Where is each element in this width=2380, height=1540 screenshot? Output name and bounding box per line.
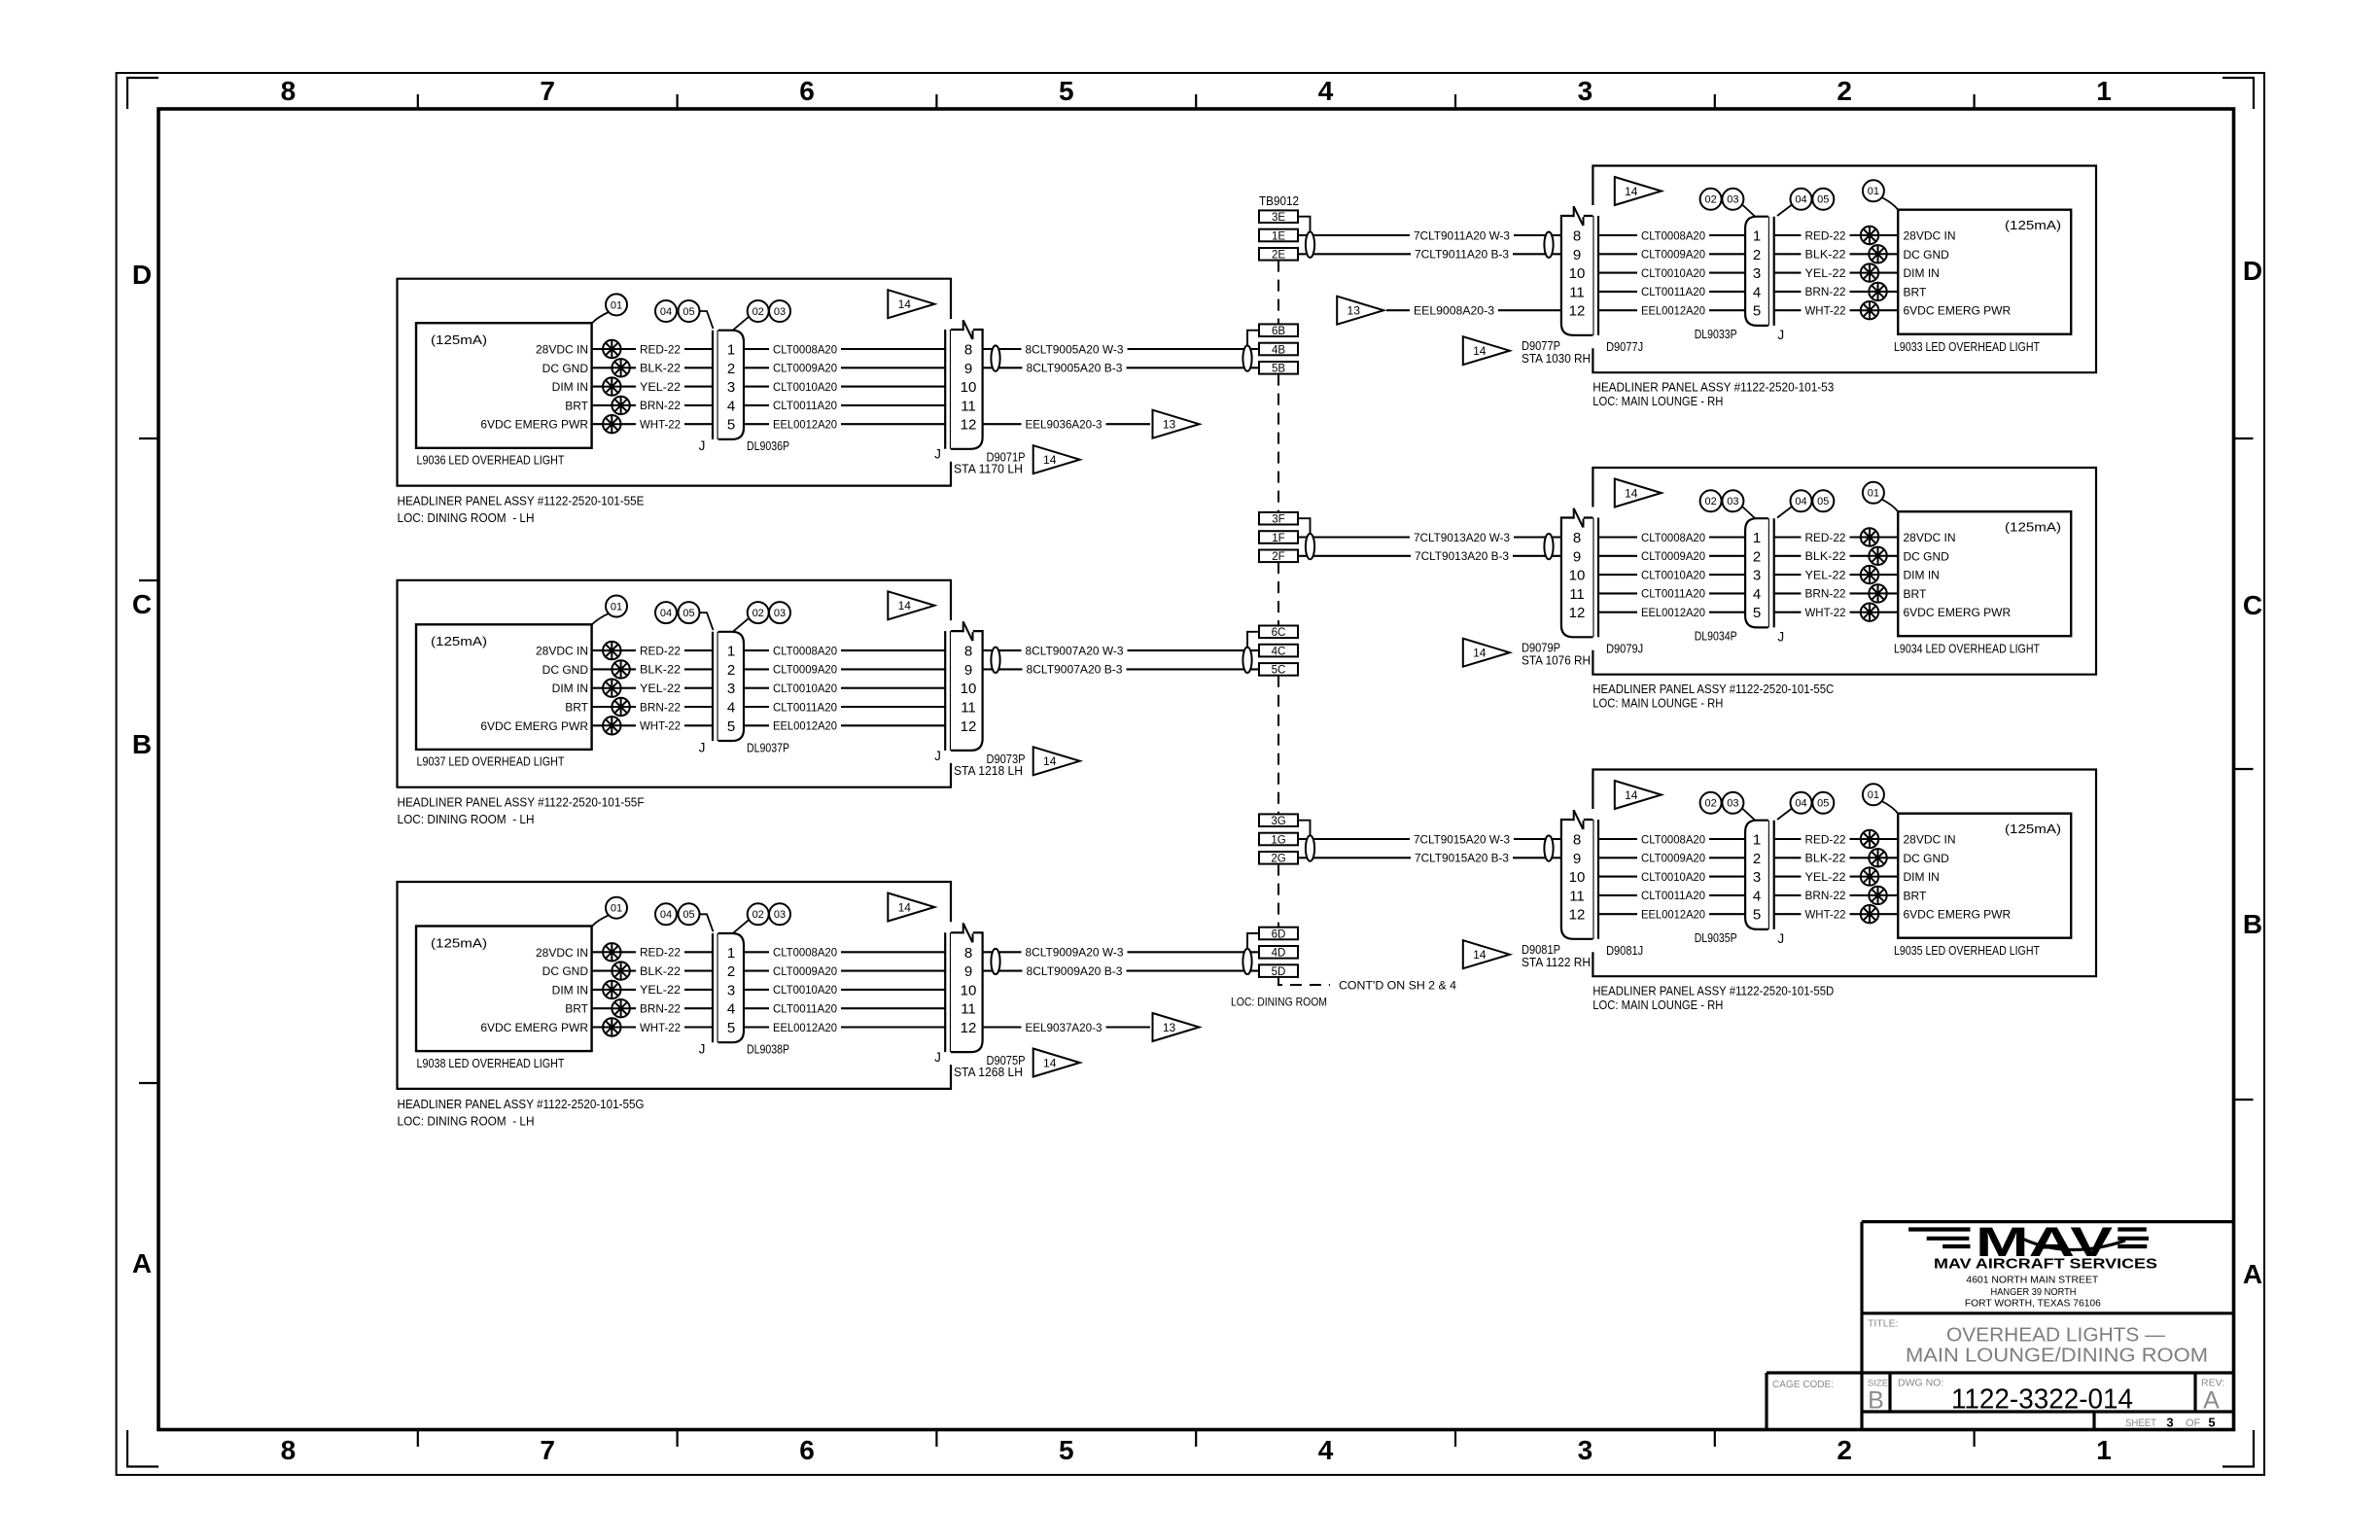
svg-text:1G: 1G xyxy=(1271,834,1285,846)
svg-text:BLK-22: BLK-22 xyxy=(640,964,681,978)
balloon 05 xyxy=(1812,792,1834,814)
connector DL9038P plug body xyxy=(718,933,744,1042)
wire CLT0011A20 from DL9037P to D9073P pin 11 xyxy=(744,706,945,708)
svg-text:WHT-22: WHT-22 xyxy=(640,418,681,432)
svg-text:28VDC IN: 28VDC IN xyxy=(1904,531,1956,544)
svg-text:02: 02 xyxy=(1704,194,1716,206)
lamp symbol on 28VDC IN wire xyxy=(603,943,620,961)
svg-text:10: 10 xyxy=(1569,568,1586,584)
svg-text:EEL9037A20-3: EEL9037A20-3 xyxy=(1026,1021,1102,1034)
svg-text:DIM IN: DIM IN xyxy=(552,983,588,997)
wire label WHT-22 xyxy=(1802,603,1850,616)
svg-text:DC GND: DC GND xyxy=(542,362,589,375)
wire label CLT0009A20 xyxy=(1637,244,1709,258)
svg-text:BLK-22: BLK-22 xyxy=(640,362,681,375)
svg-text:14: 14 xyxy=(1043,453,1057,467)
svg-text:BRN-22: BRN-22 xyxy=(640,399,681,412)
wire BRN-22 from L9036 to DL9036P pin 4 xyxy=(592,404,713,406)
svg-text:A: A xyxy=(132,1248,152,1278)
wire label RED-22 xyxy=(636,942,684,956)
svg-text:BRT: BRT xyxy=(565,399,588,412)
wire CLT0009A20 from D9079J pin 9 to DL9034P xyxy=(1598,555,1745,557)
svg-text:CLT0010A20: CLT0010A20 xyxy=(1641,266,1705,280)
shield drain wire from tag 6D xyxy=(1247,933,1259,949)
svg-text:STA 1268 LH: STA 1268 LH xyxy=(954,1065,1023,1079)
panel assy boundary 1122-2520-101-55F xyxy=(398,580,952,787)
light unit L9035 body xyxy=(1898,814,2071,938)
svg-text:05: 05 xyxy=(1817,496,1829,507)
balloon 02 xyxy=(1700,189,1722,210)
svg-text:13: 13 xyxy=(1347,304,1361,318)
wire label BRN-22 xyxy=(1802,282,1850,296)
svg-text:1: 1 xyxy=(2096,76,2112,106)
svg-text:03: 03 xyxy=(774,608,786,619)
balloon 04 xyxy=(655,602,677,623)
wire label CLT0010A20 xyxy=(1637,263,1709,277)
wire CLT0008A20 from DL9038P to D9075P pin 8 xyxy=(744,951,945,953)
svg-text:HEADLINER PANEL ASSY #1122-252: HEADLINER PANEL ASSY #1122-2520-101-53 xyxy=(1592,380,1834,395)
svg-text:CLT0009A20: CLT0009A20 xyxy=(773,964,837,978)
svg-text:(125mA): (125mA) xyxy=(431,935,487,950)
svg-text:BRN-22: BRN-22 xyxy=(640,1002,681,1016)
wire CLT0009A20 from D9081J pin 9 to DL9035P xyxy=(1598,857,1745,858)
wire CLT0010A20 from DL9036P to D9071P pin 10 xyxy=(744,386,945,388)
wire label 7CLT9011A20 W-3 xyxy=(1410,226,1514,239)
svg-text:CLT0009A20: CLT0009A20 xyxy=(1641,852,1705,865)
light unit L9034 body xyxy=(1898,511,2071,636)
balloon 03 xyxy=(769,903,790,925)
zone ticks xyxy=(417,94,419,109)
flag note triangle 14 xyxy=(1615,781,1662,809)
wire label CLT0010A20 xyxy=(769,980,841,994)
wire label CLT0008A20 xyxy=(769,942,841,956)
wire label RED-22 xyxy=(636,641,684,654)
shield twisted-pair symbol xyxy=(1544,232,1553,258)
flag note triangle 13 xyxy=(1153,1013,1200,1041)
svg-text:RED-22: RED-22 xyxy=(1805,228,1846,242)
leader from balloon 01 xyxy=(1882,801,1899,814)
wire label CLT0011A20 xyxy=(1637,282,1709,296)
wire label CLT0011A20 xyxy=(769,396,841,409)
balloon 03 xyxy=(1722,490,1743,511)
terminal tag 5C of TB9012 xyxy=(1259,663,1298,676)
leader from balloon 02 xyxy=(733,317,750,331)
svg-text:13: 13 xyxy=(1163,418,1176,432)
wire label BLK-22 xyxy=(636,659,684,673)
corner bracket bottom-left xyxy=(127,1430,158,1467)
wire RED-22 from L9038 to DL9038P pin 1 xyxy=(592,951,713,953)
svg-text:3: 3 xyxy=(1753,568,1761,584)
balloon 03 xyxy=(769,602,790,623)
wire 7CLT9011A20 B-3 xyxy=(1298,253,1561,255)
lamp symbol on BRT wire xyxy=(612,397,629,414)
disconnect D9081J jack bar xyxy=(1592,820,1593,939)
svg-text:BRT: BRT xyxy=(1904,587,1927,601)
svg-text:7: 7 xyxy=(540,1435,555,1465)
svg-text:EEL0012A20: EEL0012A20 xyxy=(1641,606,1705,619)
svg-text:WHT-22: WHT-22 xyxy=(1805,304,1846,318)
svg-text:02: 02 xyxy=(1704,496,1716,507)
svg-text:11: 11 xyxy=(1569,586,1585,603)
svg-text:9: 9 xyxy=(964,361,972,377)
svg-text:WHT-22: WHT-22 xyxy=(1805,908,1846,922)
wire label CLT0011A20 xyxy=(769,998,841,1012)
svg-text:(125mA): (125mA) xyxy=(2005,822,2061,836)
balloon 02 xyxy=(1700,792,1722,814)
light unit L9037 body xyxy=(416,624,592,750)
svg-text:WHT-22: WHT-22 xyxy=(640,1021,681,1034)
wire label CLT0011A20 xyxy=(769,697,841,711)
svg-text:03: 03 xyxy=(774,306,786,318)
svg-text:2: 2 xyxy=(727,662,735,679)
svg-text:J: J xyxy=(699,438,706,453)
leader from balloon 05 xyxy=(700,914,714,931)
shield twisted-pair symbol xyxy=(1306,534,1314,559)
wire label BLK-22 xyxy=(1802,244,1850,258)
svg-text:4: 4 xyxy=(1753,888,1761,904)
title block frame xyxy=(1862,1220,2234,1223)
svg-text:BLK-22: BLK-22 xyxy=(640,663,681,677)
wire label 8CLT9009A20 W-3 xyxy=(1022,942,1128,956)
svg-text:LOC: MAIN LOUNGE - RH: LOC: MAIN LOUNGE - RH xyxy=(1592,696,1723,711)
flag note triangle 14 xyxy=(1033,747,1080,775)
wire label 8CLT9007A20 B-3 xyxy=(1023,659,1127,673)
lamp symbol on DC GND wire xyxy=(612,660,629,678)
svg-text:5C: 5C xyxy=(1272,665,1286,677)
svg-text:CLT0011A20: CLT0011A20 xyxy=(1641,285,1705,298)
svg-text:BLK-22: BLK-22 xyxy=(1805,549,1846,563)
svg-text:05: 05 xyxy=(682,909,694,921)
svg-text:LOC: DINING ROOM - LH: LOC: DINING ROOM - LH xyxy=(398,510,535,525)
wire label WHT-22 xyxy=(636,1018,684,1032)
svg-text:14: 14 xyxy=(898,297,912,311)
wire label WHT-22 xyxy=(636,716,684,729)
svg-text:A: A xyxy=(2203,1387,2220,1415)
wire RED-22 from L9037 to DL9037P pin 1 xyxy=(592,649,713,651)
svg-text:BRT: BRT xyxy=(1904,889,1927,902)
svg-text:02: 02 xyxy=(1704,798,1716,810)
svg-text:04: 04 xyxy=(1795,496,1806,507)
svg-text:28VDC IN: 28VDC IN xyxy=(1904,833,1956,847)
balloon 01 xyxy=(1863,180,1884,201)
svg-text:4: 4 xyxy=(1753,284,1761,300)
svg-text:CLT0011A20: CLT0011A20 xyxy=(773,700,837,714)
leader from balloon 04 xyxy=(1777,204,1793,216)
svg-text:04: 04 xyxy=(660,306,672,318)
wire label CLT0009A20 xyxy=(769,659,841,673)
lamp symbol on DC GND wire xyxy=(1869,547,1886,565)
leader from balloon 01 xyxy=(592,613,609,624)
wire 7CLT9013A20 W-3 xyxy=(1298,536,1561,538)
lamp symbol on 28VDC IN wire xyxy=(1861,528,1878,545)
svg-text:5D: 5D xyxy=(1272,966,1286,978)
balloon 05 xyxy=(1812,189,1834,210)
svg-text:6: 6 xyxy=(799,1435,815,1465)
balloon 01 xyxy=(606,596,627,617)
leader from balloon 04 xyxy=(1777,507,1793,518)
svg-text:CLT0010A20: CLT0010A20 xyxy=(773,380,837,394)
svg-text:YEL-22: YEL-22 xyxy=(640,983,681,997)
svg-text:C: C xyxy=(132,589,152,619)
wire label CLT0009A20 xyxy=(769,962,841,975)
corner bracket top-left xyxy=(127,78,158,109)
lamp symbol on BRT wire xyxy=(1869,283,1886,300)
balloon 04 xyxy=(1791,189,1812,210)
svg-text:7CLT9015A20 B-3: 7CLT9015A20 B-3 xyxy=(1415,852,1509,865)
svg-text:YEL-22: YEL-22 xyxy=(1805,266,1846,280)
svg-text:8: 8 xyxy=(1573,832,1581,849)
wire EEL0012A20 from DL9038P to D9075P pin 12 xyxy=(744,1026,945,1028)
wire label RED-22 xyxy=(636,339,684,353)
svg-text:02: 02 xyxy=(752,306,764,318)
balloon 05 xyxy=(679,903,700,925)
svg-text:OF: OF xyxy=(2186,1417,2201,1429)
svg-text:BRT: BRT xyxy=(1904,285,1927,298)
svg-text:6C: 6C xyxy=(1272,627,1286,639)
svg-text:A: A xyxy=(2243,1259,2262,1289)
svg-text:LOC: MAIN LOUNGE - RH: LOC: MAIN LOUNGE - RH xyxy=(1592,997,1723,1012)
wire label EEL0012A20 xyxy=(1637,603,1709,616)
svg-text:CLT0010A20: CLT0010A20 xyxy=(773,983,837,997)
shield twisted-pair symbol xyxy=(1242,345,1251,370)
svg-text:2F: 2F xyxy=(1272,551,1284,563)
svg-text:5: 5 xyxy=(1059,76,1074,106)
dashed terminal strip continuation line xyxy=(1277,864,1279,927)
wire label BRN-22 xyxy=(636,396,684,409)
svg-text:2G: 2G xyxy=(1271,854,1285,865)
svg-text:8: 8 xyxy=(964,342,972,359)
svg-text:RED-22: RED-22 xyxy=(640,946,681,960)
wire 8CLT9009A20 B-3 xyxy=(983,970,1259,972)
svg-text:(125mA): (125mA) xyxy=(2005,218,2061,232)
svg-text:2: 2 xyxy=(727,963,735,980)
terminal tag 3E of TB9012 xyxy=(1259,210,1298,223)
disconnect D9071P jack bar xyxy=(944,330,946,449)
wire CLT0009A20 from DL9037P to D9073P pin 9 xyxy=(744,668,945,670)
svg-text:6VDC EMERG PWR: 6VDC EMERG PWR xyxy=(1904,304,2012,318)
lamp symbol on 6VDC EMERG PWR wire xyxy=(603,1018,620,1035)
svg-text:RED-22: RED-22 xyxy=(640,342,681,356)
svg-text:10: 10 xyxy=(961,379,977,396)
svg-text:DC GND: DC GND xyxy=(1904,248,1950,262)
svg-text:J: J xyxy=(934,447,941,462)
lamp symbol on DC GND wire xyxy=(1869,245,1886,262)
svg-text:12: 12 xyxy=(961,718,977,735)
svg-text:(125mA): (125mA) xyxy=(431,332,487,347)
wire EEL0012A20 from D9077J pin 12 to DL9033P xyxy=(1598,309,1745,311)
wire CLT0010A20 from DL9038P to D9075P pin 10 xyxy=(744,989,945,991)
lamp symbol on 28VDC IN wire xyxy=(1861,227,1878,244)
wire label CLT0010A20 xyxy=(1637,867,1709,881)
svg-text:RED-22: RED-22 xyxy=(640,644,681,657)
disconnect D9077P plug body xyxy=(1561,216,1593,335)
wire label YEL-22 xyxy=(636,679,684,692)
light unit L9036 body xyxy=(416,323,592,448)
svg-text:4D: 4D xyxy=(1272,948,1286,960)
leader from balloon 01 xyxy=(1882,197,1899,210)
svg-text:8CLT9009A20 B-3: 8CLT9009A20 B-3 xyxy=(1027,964,1123,978)
svg-text:1122-3322-014: 1122-3322-014 xyxy=(1951,1384,2133,1416)
wire label BRN-22 xyxy=(1802,583,1850,597)
svg-text:6: 6 xyxy=(799,76,815,106)
svg-text:BRT: BRT xyxy=(565,701,588,715)
svg-text:HEADLINER PANEL ASSY #1122-252: HEADLINER PANEL ASSY #1122-2520-101-55F xyxy=(398,795,645,810)
svg-text:DC GND: DC GND xyxy=(1904,852,1950,865)
panel assy boundary 1122-2520-101-55D xyxy=(1592,770,2096,977)
panel assy boundary 1122-2520-101-55E xyxy=(398,279,952,486)
wire BLK-22 from DL9034P pin 2 to L9034 xyxy=(1774,555,1899,557)
svg-text:01: 01 xyxy=(611,299,622,311)
svg-text:J: J xyxy=(699,1042,706,1057)
svg-text:DIM IN: DIM IN xyxy=(552,682,588,695)
wire YEL-22 from DL9033P pin 3 to L9033 xyxy=(1774,272,1899,274)
connector DL9034P jack bar xyxy=(1767,518,1769,627)
svg-text:STA 1170 LH: STA 1170 LH xyxy=(954,462,1023,476)
svg-text:BRN-22: BRN-22 xyxy=(1805,889,1846,902)
svg-text:01: 01 xyxy=(611,903,622,915)
svg-text:(125mA): (125mA) xyxy=(431,634,487,648)
lamp symbol on DIM IN wire xyxy=(1861,867,1878,885)
svg-text:1E: 1E xyxy=(1272,230,1285,242)
svg-text:6VDC EMERG PWR: 6VDC EMERG PWR xyxy=(480,719,588,733)
svg-text:7CLT9011A20 W-3: 7CLT9011A20 W-3 xyxy=(1414,228,1510,242)
connector DL9037P plug body xyxy=(718,632,744,741)
corner bracket bottom-right xyxy=(2222,1430,2254,1467)
lamp symbol on 28VDC IN wire xyxy=(1861,830,1878,848)
svg-text:02: 02 xyxy=(752,608,764,619)
lamp symbol on 28VDC IN wire xyxy=(603,340,620,358)
wire RED-22 from DL9034P pin 1 to L9034 xyxy=(1774,536,1899,538)
svg-text:DC GND: DC GND xyxy=(1904,549,1950,563)
svg-text:9: 9 xyxy=(964,662,972,679)
flag note triangle 14 xyxy=(1463,639,1510,667)
wire label CLT0009A20 xyxy=(769,358,841,371)
svg-text:03: 03 xyxy=(1727,798,1738,810)
svg-text:FORT WORTH, TEXAS 76106: FORT WORTH, TEXAS 76106 xyxy=(1965,1299,2101,1310)
svg-text:9: 9 xyxy=(964,963,972,980)
shield twisted-pair symbol xyxy=(1306,835,1314,860)
connector DL9038P jack bar xyxy=(712,933,714,1042)
lamp symbol on BRT wire xyxy=(1869,887,1886,904)
svg-text:4: 4 xyxy=(727,398,735,414)
svg-text:8: 8 xyxy=(964,644,972,660)
wire YEL-22 from L9036 to DL9036P pin 3 xyxy=(592,386,713,388)
disconnect D9079J jack bar xyxy=(1592,518,1593,638)
dashed terminal strip continuation line xyxy=(1277,261,1279,325)
wire label 7CLT9011A20 B-3 xyxy=(1411,244,1513,258)
svg-text:B: B xyxy=(1868,1387,1884,1415)
wire label BRN-22 xyxy=(1802,886,1850,899)
shield drain wire from tag 6C xyxy=(1247,632,1259,647)
break symbol on D9077P xyxy=(1574,214,1584,217)
svg-text:10: 10 xyxy=(1569,869,1586,886)
svg-text:6B: 6B xyxy=(1272,326,1285,337)
terminal tag 5B of TB9012 xyxy=(1259,362,1298,374)
svg-text:DIM IN: DIM IN xyxy=(1904,266,1940,280)
svg-text:BLK-22: BLK-22 xyxy=(1805,248,1846,262)
svg-text:3F: 3F xyxy=(1272,514,1284,526)
svg-text:J: J xyxy=(699,740,706,754)
svg-text:03: 03 xyxy=(1727,194,1738,206)
leader from balloon 01 xyxy=(1882,500,1899,512)
svg-text:28VDC IN: 28VDC IN xyxy=(1904,229,1956,243)
svg-text:02: 02 xyxy=(752,909,764,921)
svg-text:RED-22: RED-22 xyxy=(1805,531,1846,544)
wire label 8CLT9009A20 B-3 xyxy=(1023,962,1127,975)
svg-text:01: 01 xyxy=(1868,789,1879,801)
svg-text:CLT0008A20: CLT0008A20 xyxy=(773,342,837,356)
svg-text:5: 5 xyxy=(727,718,735,735)
wire EEL0012A20 from D9081J pin 12 to DL9035P xyxy=(1598,913,1745,915)
svg-text:11: 11 xyxy=(961,700,976,717)
wire BLK-22 from DL9033P pin 2 to L9033 xyxy=(1774,253,1899,255)
lamp symbol on BRT wire xyxy=(1869,584,1886,602)
svg-text:14: 14 xyxy=(1625,486,1638,500)
flag note triangle 14 xyxy=(1463,336,1510,365)
terminal tag 3G of TB9012 xyxy=(1259,814,1298,826)
svg-text:DIM IN: DIM IN xyxy=(1904,870,1940,884)
dashed terminal strip continuation line xyxy=(1277,562,1279,625)
lamp symbol on 28VDC IN wire xyxy=(603,642,620,659)
svg-text:L9034 LED OVERHEAD LIGHT: L9034 LED OVERHEAD LIGHT xyxy=(1894,642,2040,656)
disconnect D9073P jack bar xyxy=(944,631,946,751)
svg-text:4: 4 xyxy=(1753,586,1761,603)
leader from balloon 04 xyxy=(1777,808,1793,820)
svg-text:J: J xyxy=(934,749,941,763)
connector DL9033P plug body xyxy=(1745,217,1768,326)
svg-text:5: 5 xyxy=(727,417,735,434)
shield twisted-pair symbol xyxy=(1544,835,1553,860)
lamp symbol on DIM IN wire xyxy=(1861,263,1878,281)
svg-text:10: 10 xyxy=(961,982,977,998)
svg-text:12: 12 xyxy=(1569,605,1586,621)
balloon 01 xyxy=(1863,784,1884,805)
connector DL9036P plug body xyxy=(718,331,744,439)
wire WHT-22 from DL9035P pin 5 to L9035 xyxy=(1774,913,1899,915)
svg-text:1: 1 xyxy=(727,945,735,962)
svg-text:11: 11 xyxy=(961,1001,976,1018)
terminal tag 4B of TB9012 xyxy=(1259,343,1298,356)
svg-text:CLT0011A20: CLT0011A20 xyxy=(773,1002,837,1016)
svg-text:1: 1 xyxy=(727,644,735,660)
terminal tag 2F of TB9012 xyxy=(1259,550,1298,563)
wire label 8CLT9005A20 B-3 xyxy=(1023,358,1127,371)
svg-text:05: 05 xyxy=(682,306,694,318)
wire BRN-22 from L9037 to DL9037P pin 4 xyxy=(592,706,713,708)
wire label YEL-22 xyxy=(1802,565,1850,578)
wire label YEL-22 xyxy=(636,377,684,391)
shield twisted-pair symbol xyxy=(991,949,999,974)
flag note triangle 13 xyxy=(1153,410,1200,438)
terminal tag 4D of TB9012 xyxy=(1259,946,1298,959)
lamp symbol on DC GND wire xyxy=(612,359,629,376)
wire WHT-22 from DL9033P pin 5 to L9033 xyxy=(1774,309,1899,311)
svg-text:CLT0009A20: CLT0009A20 xyxy=(1641,549,1705,563)
svg-text:EEL0012A20: EEL0012A20 xyxy=(773,719,837,733)
leader from balloon 03 xyxy=(1742,507,1756,519)
svg-text:EEL0012A20: EEL0012A20 xyxy=(1641,908,1705,922)
shield drain wire from tag 6B xyxy=(1247,331,1259,346)
svg-text:LOC: DINING ROOM: LOC: DINING ROOM xyxy=(1231,996,1327,1009)
wire label CLT0008A20 xyxy=(769,339,841,353)
svg-text:5: 5 xyxy=(1753,303,1761,320)
svg-text:2: 2 xyxy=(1837,1435,1852,1465)
svg-text:CLT0008A20: CLT0008A20 xyxy=(1641,228,1705,242)
svg-text:5: 5 xyxy=(1753,907,1761,924)
wire EEL0012A20 from DL9036P to D9071P pin 12 xyxy=(744,423,945,425)
svg-text:CLT0009A20: CLT0009A20 xyxy=(1641,248,1705,262)
svg-text:1F: 1F xyxy=(1272,533,1284,544)
